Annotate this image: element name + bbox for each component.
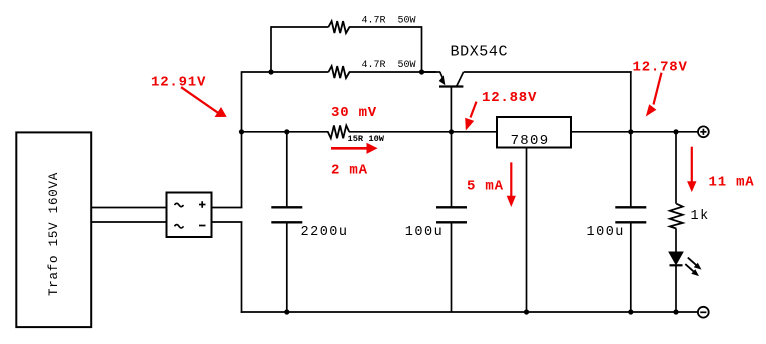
wire collector run [464, 71, 632, 73]
resistor R4 1k [670, 204, 710, 229]
regulator U1 7809 [497, 117, 571, 312]
annotation current arrow 2 mA [331, 143, 378, 179]
annotation 12.78V [633, 60, 688, 117]
wire main rail right segment [571, 131, 698, 133]
resistor R1 4.7R 50W top [328, 15, 415, 33]
annotation 12.88V [465, 90, 537, 130]
svg-text:100u: 100u [405, 225, 443, 240]
node main rail input [239, 129, 244, 134]
node C1 bottom [284, 309, 289, 314]
svg-text:12.91V: 12.91V [151, 75, 206, 91]
wire right vertical between resistor rows [421, 26, 423, 72]
node regulator ground [524, 309, 529, 314]
node base rail [449, 129, 454, 134]
annotation 30 mV [331, 105, 377, 121]
resistor R2 4.7R 50W second [328, 60, 415, 78]
node C1 top [284, 129, 289, 134]
svg-text:5 mA: 5 mA [467, 179, 504, 195]
node C3 bottom [628, 309, 633, 314]
wire resistor to LED [675, 229, 677, 253]
transformer T1 Trafo 15V 160VA [16, 132, 91, 327]
svg-text:4.7R 50W: 4.7R 50W [362, 60, 416, 71]
svg-text:30 mV: 30 mV [331, 105, 377, 121]
terminal plus output [698, 126, 709, 137]
svg-text:Trafo 15V 160VA: Trafo 15V 160VA [47, 172, 61, 296]
wire ground rail [241, 311, 698, 313]
node output branch [673, 129, 678, 134]
terminal minus output [698, 307, 709, 318]
wire output branch vertical [675, 132, 677, 204]
wire trafo to bridge bottom [91, 221, 168, 223]
wire trafo to bridge top [91, 207, 168, 209]
svg-text:11 mA: 11 mA [709, 175, 755, 191]
node LED bottom [673, 309, 678, 314]
svg-text:12.88V: 12.88V [482, 90, 537, 106]
svg-text:1k: 1k [691, 209, 710, 224]
annotation current arrow 5 mA [467, 162, 516, 207]
svg-text:12.78V: 12.78V [633, 60, 688, 76]
wire bridge plus output [212, 207, 243, 209]
resistor R3 15R 10W on rail [328, 126, 385, 144]
node collector rail [628, 129, 633, 134]
wire collector drop vertical [630, 71, 632, 132]
capacitor C3 100u [587, 132, 647, 312]
svg-text:2 mA: 2 mA [331, 163, 368, 179]
annotation 12.91V [151, 75, 227, 118]
capacitor C1 2200u [271, 132, 348, 312]
wire second resistor row [242, 71, 437, 73]
wire bridge minus output [212, 221, 243, 223]
svg-text:BDX54C: BDX54C [451, 44, 509, 61]
node resistor row right [419, 69, 424, 74]
capacitor C2 100u [405, 132, 467, 312]
wire input riser vertical [241, 71, 243, 207]
svg-text:2200u: 2200u [301, 225, 349, 240]
node resistor row left [268, 69, 273, 74]
annotation current arrow 11 mA [687, 147, 754, 192]
wire main rail left segment [241, 131, 497, 133]
wire minus drop vertical [241, 222, 243, 313]
wire left vertical between resistor rows [270, 26, 272, 72]
svg-text:4.7R 50W: 4.7R 50W [362, 15, 416, 26]
svg-text:15R 10W: 15R 10W [348, 134, 385, 144]
svg-text:7809: 7809 [511, 133, 550, 149]
transistor Q1 BDX54C [422, 44, 509, 132]
svg-text:100u: 100u [587, 225, 625, 240]
bridge rectifier B1 [167, 193, 212, 238]
LED D1 [669, 252, 702, 312]
wire top resistor row [271, 26, 422, 28]
